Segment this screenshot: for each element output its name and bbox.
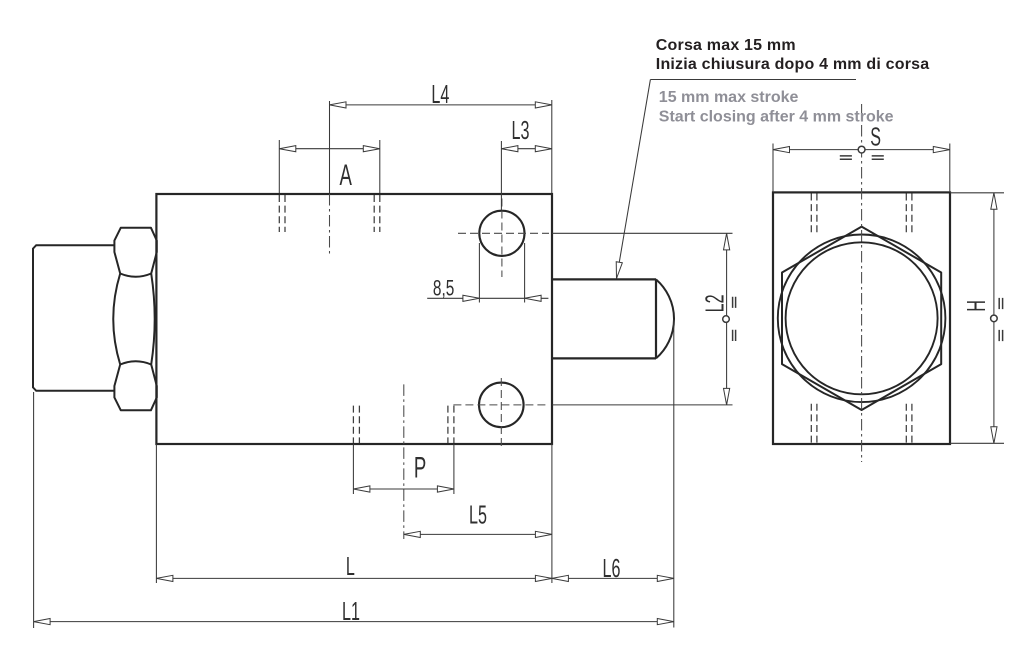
valve body rectangle [156, 194, 552, 444]
svg-text:H: H [961, 300, 991, 312]
hex nut side view [113, 228, 157, 411]
end view rectangle [773, 192, 950, 444]
dimension L [156, 444, 552, 583]
inner circle [786, 242, 938, 394]
dimension L4 [330, 100, 552, 193]
svg-text:L6: L6 [603, 553, 621, 583]
hidden thread lines end view bottom [811, 404, 912, 443]
hidden thread lines port P [353, 406, 454, 443]
dimension L2 [552, 233, 733, 405]
dimension H [950, 193, 1004, 443]
svg-text:L: L [346, 551, 355, 581]
dimension L5 [404, 444, 552, 583]
dimension 8,5 [427, 243, 548, 303]
svg-text:L5: L5 [469, 499, 487, 529]
threaded spigot cylinder (left) [33, 245, 114, 391]
chamfer circle [778, 234, 946, 402]
end view vertical centerline [861, 104, 863, 462]
svg-text:L3: L3 [512, 115, 530, 145]
centerlines top hole [458, 199, 549, 278]
centerline port P [403, 384, 405, 539]
port hole bottom [479, 383, 524, 428]
svg-text:L2: L2 [699, 294, 729, 312]
symmetry symbol L2 [723, 297, 736, 341]
hidden thread lines port A [279, 195, 380, 232]
svg-text:S: S [870, 122, 881, 152]
plunger stem with dome end [553, 279, 674, 358]
svg-text:P: P [414, 451, 426, 485]
port hole top 8.5 [479, 211, 524, 256]
leader line with arrow to stem [617, 80, 651, 279]
dimension S [773, 144, 950, 193]
dimension L3 [501, 141, 551, 210]
centerlines bottom hole [453, 378, 549, 450]
dimension P [353, 444, 454, 494]
svg-text:A: A [339, 159, 352, 193]
svg-text:15 mm max stroke: 15 mm max stroke [659, 89, 799, 106]
hex nut hexagon (end view) [782, 227, 941, 410]
dimension L6 [552, 320, 674, 628]
dimension L1 [34, 392, 674, 628]
centerline port A [329, 101, 331, 194]
hidden thread lines end view top [811, 194, 912, 234]
symmetry symbol S [840, 146, 884, 159]
svg-text:Inizia chiusura dopo 4 mm di c: Inizia chiusura dopo 4 mm di corsa [656, 56, 930, 73]
svg-text:Corsa max 15 mm: Corsa max 15 mm [656, 37, 796, 54]
svg-text:8,5: 8,5 [433, 277, 454, 301]
svg-text:L4: L4 [431, 79, 449, 109]
svg-text:Start closing after 4 mm strok: Start closing after 4 mm stroke [659, 108, 894, 125]
dimension A [279, 140, 380, 193]
symmetry symbol H [991, 298, 1003, 341]
svg-text:L1: L1 [342, 596, 360, 626]
